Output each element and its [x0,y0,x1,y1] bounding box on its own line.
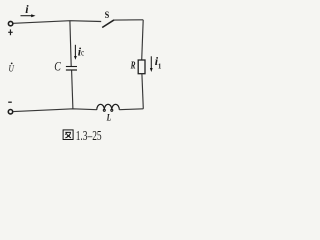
label R [130,59,136,70]
wire bottom-left segment [13,109,96,112]
caption: character tu (figure) [63,130,73,140]
current arrow i [21,14,36,17]
current arrow ic [74,45,77,60]
coil loop a [103,109,105,111]
svg-text:1: 1 [158,63,162,71]
svg-text:R: R [130,59,136,70]
caption: 1.3-25 [76,128,102,143]
terminal bottom-left [8,110,12,114]
coil loop b [111,109,113,111]
paper background [0,0,180,149]
plus sign [8,29,13,35]
inductor L coil [97,104,120,109]
wire capacitor branch lower [72,70,73,108]
label L [106,112,111,123]
svg-text:c: c [81,48,85,58]
capacitor C plates [66,67,77,71]
wire top-left segment [14,21,102,24]
current arrow i1 [150,56,153,72]
wire capacitor branch upper [70,21,71,66]
svg-text:S: S [105,9,110,20]
wire right branch upper [142,20,144,60]
label U (source voltage) [9,62,15,73]
resistor R [138,60,145,74]
svg-text:1.3–25: 1.3–25 [76,128,102,143]
label C [54,61,61,74]
svg-text:L: L [106,112,111,123]
minus sign [8,101,12,103]
label S [105,9,110,20]
terminal top-left [8,21,12,25]
wire top-right segment [114,19,143,21]
wire right branch lower [142,74,143,109]
switch S blade [102,20,114,28]
wire bottom-right segment [119,108,143,111]
svg-text:C: C [54,61,61,74]
